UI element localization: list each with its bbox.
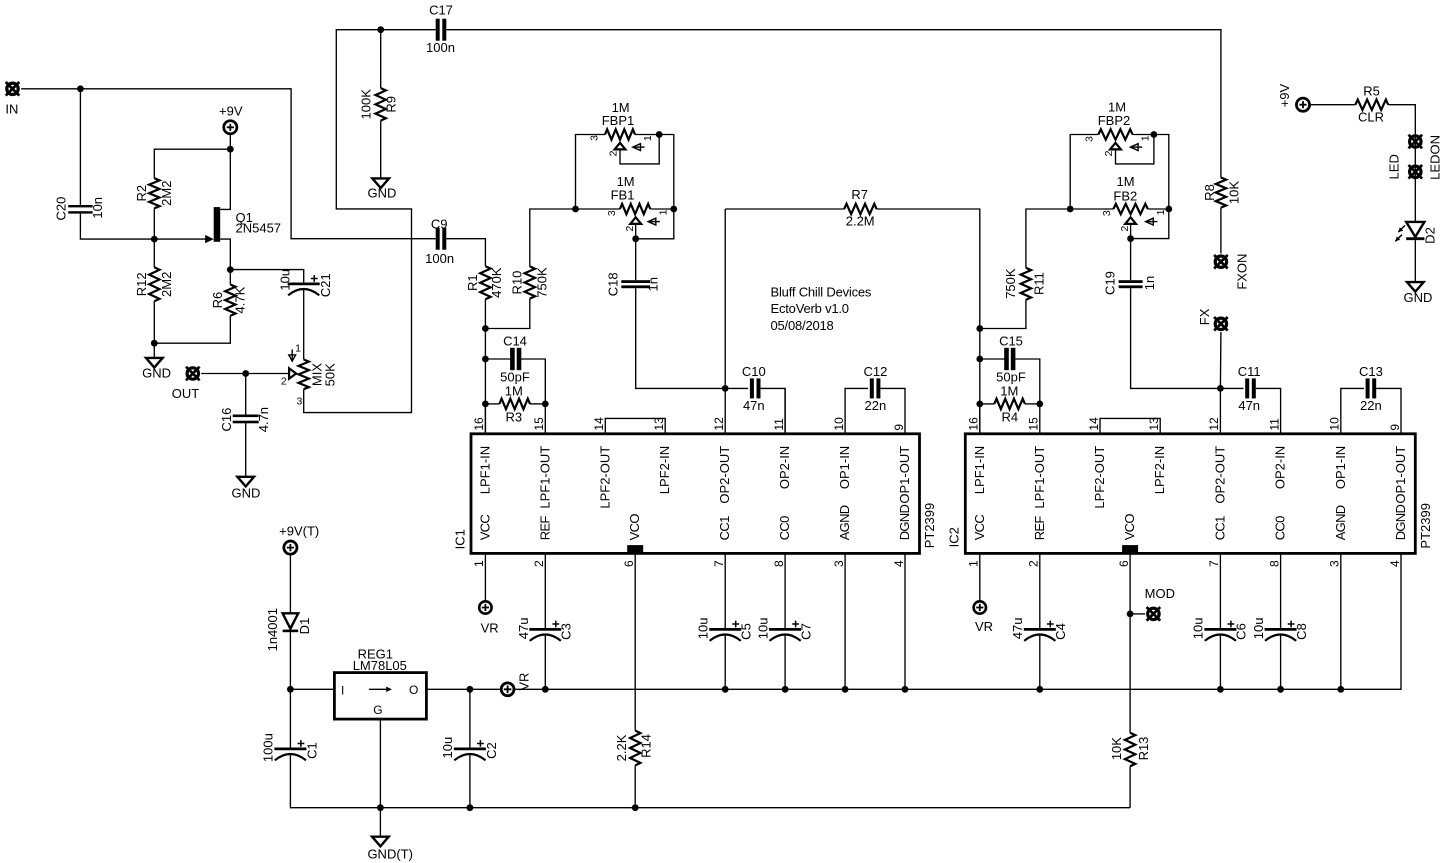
svg-text:16: 16: [472, 417, 486, 431]
marker D2 light arrows: [1398, 225, 1405, 232]
svg-text:C17: C17: [429, 3, 453, 18]
svg-text:2: 2: [281, 375, 287, 387]
wire C13 bracket right: [1376, 388, 1401, 433]
power VR under IC2 pin1: [974, 601, 986, 613]
svg-text:GND: GND: [1404, 290, 1433, 305]
wire C4 bottom: [1039, 634, 1041, 689]
wire IC1 pin15 stub: [544, 404, 546, 434]
wire FBP2 wiper bracket: [1116, 135, 1154, 164]
potentiometer FB1 1M: [620, 204, 650, 214]
wire MIX pin3 feedback loop: [304, 30, 436, 413]
svg-text:7: 7: [712, 560, 726, 567]
svg-text:R7: R7: [851, 187, 868, 202]
svg-text:FB2: FB2: [1113, 189, 1137, 204]
ground GND under C16: [237, 477, 254, 487]
wire IC1 pin4 stub: [904, 553, 906, 689]
svg-text:R12: R12: [134, 272, 149, 296]
svg-text:C10: C10: [742, 364, 766, 379]
svg-text:AGND: AGND: [837, 505, 852, 540]
wire FBP1 wiper bracket: [620, 135, 659, 164]
svg-text:15: 15: [532, 417, 546, 431]
svg-text:22n: 22n: [1360, 398, 1382, 413]
junction +9V node: [227, 146, 234, 153]
svg-text:R3: R3: [505, 410, 522, 425]
wire R7 right: [877, 209, 980, 329]
svg-text:C2: C2: [484, 742, 499, 759]
pad FX: [1214, 317, 1228, 331]
wire source: [220, 239, 230, 270]
wiper FBP2: [1110, 143, 1121, 150]
wire C14 bracket: [485, 358, 510, 360]
wire R13 top: [1129, 553, 1131, 732]
svg-text:C6: C6: [1234, 623, 1249, 640]
wire D2 cathode: [1414, 240, 1416, 282]
svg-text:1M: 1M: [1000, 384, 1018, 399]
svg-text:12: 12: [1207, 417, 1221, 431]
wire +9V stub: [229, 134, 231, 149]
wire R10 top: [530, 209, 576, 266]
svg-text:+9V: +9V: [219, 103, 243, 118]
svg-text:C7: C7: [798, 623, 813, 640]
svg-text:FX: FX: [1197, 308, 1212, 325]
svg-text:11: 11: [1267, 418, 1281, 431]
junction FB2 right: [1165, 206, 1172, 213]
svg-text:C8: C8: [1294, 623, 1309, 640]
junction IC1 pin4/VR rail: [902, 686, 909, 693]
svg-text:REF: REF: [537, 516, 552, 541]
svg-text:1: 1: [1140, 135, 1152, 141]
svg-text:OP2-OUT: OP2-OUT: [1212, 446, 1227, 504]
wire IC2 pin15 stub: [1039, 404, 1041, 434]
svg-text:IN: IN: [5, 102, 18, 117]
capacitor C17: [436, 19, 440, 41]
wiper MIX: [289, 368, 296, 378]
wire C17 right to R8: [446, 30, 1221, 178]
wire C11 bracket right: [1256, 388, 1281, 433]
wire C7 bottom: [784, 634, 786, 689]
svg-text:AGND: AGND: [1333, 505, 1348, 540]
junction C15 left: [976, 356, 983, 363]
wire C10 bracket left: [725, 387, 748, 389]
svg-text:2: 2: [1103, 150, 1115, 156]
svg-text:C1: C1: [305, 742, 320, 759]
wire REG1 G stub: [379, 719, 381, 808]
svg-text:47u: 47u: [1010, 618, 1025, 640]
svg-text:CLR: CLR: [1358, 109, 1384, 124]
resistor R9: [376, 88, 386, 121]
junction gate node: [151, 236, 158, 243]
junction R3 left pin16: [482, 401, 489, 408]
svg-text:10u: 10u: [278, 269, 293, 291]
marker FBP1 cw arrow: [633, 146, 645, 148]
capacitor C18: [621, 280, 650, 283]
wire FB1 pin1 bracket: [636, 209, 674, 239]
svg-text:OP1-IN: OP1-IN: [1333, 446, 1348, 489]
svg-text:3: 3: [589, 135, 601, 141]
potentiometer FB2 1M: [1113, 204, 1147, 214]
junction C7/VR rail: [782, 686, 789, 693]
junction FB1 right: [670, 206, 677, 213]
wire MOD stub: [1130, 613, 1145, 615]
svg-text:C21: C21: [318, 273, 333, 297]
wire FBP2 right: [1133, 135, 1169, 210]
svg-text:VCC: VCC: [477, 515, 492, 541]
svg-text:12: 12: [712, 417, 726, 431]
svg-text:3: 3: [1101, 210, 1113, 216]
wire FB2 right to bracket: [1148, 208, 1169, 210]
junction C2 top: [467, 686, 474, 693]
wire C18 bottom to pin12: [636, 288, 726, 388]
resistor R1: [480, 266, 490, 299]
wire FB2 pin1 bracket: [1131, 209, 1169, 239]
svg-text:750K: 750K: [1003, 268, 1018, 299]
svg-text:C12: C12: [863, 364, 887, 379]
svg-text:4: 4: [1388, 560, 1402, 567]
wire R10 bottom: [485, 299, 529, 329]
wire C21 to MIX pin1: [303, 289, 305, 360]
svg-text:10u: 10u: [440, 737, 455, 759]
wire IC1 pin2 stub: [544, 553, 546, 628]
junction source node: [227, 266, 234, 273]
wire FB1 row: [576, 208, 620, 210]
pad LEDON: [1409, 135, 1423, 149]
svg-text:OP1-IN: OP1-IN: [837, 446, 852, 489]
svg-text:47n: 47n: [1238, 398, 1260, 413]
wire C11 bracket left: [1220, 387, 1243, 389]
svg-text:PT2399: PT2399: [922, 503, 937, 549]
resistor R6: [225, 285, 235, 316]
wire R3 right stub: [530, 403, 545, 405]
svg-text:LM78L05: LM78L05: [353, 658, 407, 673]
wire R8 bottom: [1220, 208, 1222, 254]
svg-text:4: 4: [892, 560, 906, 567]
wire C6 bottom: [1219, 634, 1221, 689]
marker MIX cw arrow: [291, 349, 293, 361]
junction G/gnd bus: [377, 804, 384, 811]
svg-text:2N5457: 2N5457: [236, 221, 282, 236]
svg-text:10u: 10u: [1191, 618, 1206, 640]
wire IC2 pin8 stub: [1280, 553, 1282, 628]
svg-text:R6: R6: [210, 292, 225, 309]
wire FBP1 pin3 left: [576, 135, 606, 210]
svg-text:R11: R11: [1032, 272, 1047, 295]
svg-text:OP1-OUT: OP1-OUT: [1393, 446, 1408, 504]
svg-text:LPF1-IN: LPF1-IN: [477, 446, 492, 494]
svg-text:100n: 100n: [425, 251, 454, 266]
svg-text:2: 2: [624, 226, 636, 232]
IC IC2 PT2399 body: [965, 434, 1415, 554]
svg-text:LPF1-OUT: LPF1-OUT: [1032, 446, 1047, 509]
svg-text:8: 8: [1267, 560, 1281, 567]
junction OUT/C16: [242, 370, 249, 377]
svg-text:D1: D1: [297, 618, 312, 635]
ground GND left: [146, 358, 163, 368]
wire R4 right stub: [1025, 403, 1040, 405]
svg-text:+9V: +9V: [1277, 84, 1292, 108]
wire FX to pin12: [1219, 332, 1222, 388]
capacitor C7: [769, 628, 801, 631]
junction C17/R9: [377, 26, 384, 33]
capacitor C5: [709, 628, 741, 631]
svg-text:R10: R10: [510, 271, 525, 295]
wire FB2 wiper stub: [1130, 224, 1132, 239]
svg-text:8: 8: [772, 560, 786, 567]
junction R1/R10: [482, 325, 489, 332]
capacitor C19: [1119, 280, 1143, 283]
junction C3/VR rail: [542, 686, 549, 693]
svg-text:R14: R14: [638, 734, 653, 758]
svg-text:OUT: OUT: [172, 386, 200, 401]
svg-text:C5: C5: [738, 623, 753, 640]
svg-text:1M: 1M: [505, 384, 523, 399]
svg-text:OP2-IN: OP2-IN: [1273, 446, 1288, 489]
svg-text:IC2: IC2: [947, 527, 962, 547]
svg-text:EctoVerb v1.0: EctoVerb v1.0: [771, 301, 849, 316]
svg-text:1n: 1n: [646, 277, 661, 291]
svg-text:2M2: 2M2: [159, 272, 174, 297]
wire C10 bracket right: [761, 388, 786, 433]
power VR flag: [501, 683, 514, 696]
resistor R11 750K: [1021, 268, 1031, 300]
svg-text:11: 11: [772, 418, 786, 431]
wire R14 bottom: [634, 765, 636, 807]
svg-text:3: 3: [606, 210, 618, 216]
svg-text:FB1: FB1: [611, 188, 635, 203]
pad IN: [6, 82, 20, 96]
svg-text:LPF1-IN: LPF1-IN: [972, 446, 987, 494]
wire C18 top: [635, 239, 637, 280]
svg-text:VCO: VCO: [627, 514, 642, 541]
wire C20 bottom to gate: [80, 214, 206, 240]
pad OUT: [186, 367, 200, 381]
svg-text:10: 10: [1328, 417, 1342, 431]
svg-text:2: 2: [532, 560, 546, 567]
svg-text:9: 9: [1388, 424, 1402, 431]
svg-text:1: 1: [642, 135, 654, 141]
svg-text:CC0: CC0: [777, 516, 792, 540]
svg-text:I: I: [341, 683, 344, 697]
resistor R8 10K: [1216, 178, 1226, 208]
ground GND under R9: [372, 178, 389, 188]
svg-text:GND(T): GND(T): [367, 847, 413, 862]
svg-text:DGND: DGND: [897, 505, 912, 541]
wiper FB2: [1125, 217, 1136, 224]
svg-text:10u: 10u: [755, 618, 770, 640]
wire C15 bracket right: [1015, 359, 1040, 404]
svg-text:10: 10: [832, 417, 846, 431]
wire OUT to wiper: [201, 373, 289, 375]
svg-text:750K: 750K: [534, 267, 549, 298]
capacitor C3: [529, 628, 561, 631]
junction R14/gnd bus: [632, 804, 639, 811]
svg-text:47n: 47n: [743, 398, 765, 413]
junction IC2 pin3/VR rail: [1337, 686, 1344, 693]
wire C15 bracket: [980, 358, 1005, 360]
wire IC2 pin3 stub: [1340, 553, 1342, 689]
resistor R3: [499, 399, 530, 409]
svg-text:LEDON: LEDON: [1428, 135, 1443, 180]
marker REG1 arrow: [369, 688, 389, 690]
resistor R10: [525, 266, 535, 298]
wire C19 top: [1130, 239, 1132, 281]
wire C1 top: [289, 689, 291, 747]
svg-text:2.2K: 2.2K: [614, 734, 629, 761]
svg-text:DGND: DGND: [1393, 505, 1408, 541]
svg-text:1: 1: [657, 209, 669, 215]
wire R7 left drop: [724, 209, 726, 388]
svg-text:R13: R13: [1136, 737, 1151, 761]
junction FBP1 pin1: [656, 131, 663, 138]
svg-text:10n: 10n: [90, 197, 105, 219]
svg-text:100K: 100K: [359, 89, 374, 120]
diode D1: [283, 613, 299, 628]
svg-text:LPF2-OUT: LPF2-OUT: [1092, 446, 1107, 509]
wire C20 top: [79, 89, 81, 205]
capacitor C14: [510, 348, 515, 370]
wire IC1 pin3 stub: [844, 553, 846, 689]
svg-text:100n: 100n: [426, 40, 455, 55]
resistor R4: [994, 399, 1025, 409]
wire IC1 pin14-13 bracket: [605, 418, 665, 433]
resistor R5: [1355, 100, 1388, 110]
svg-text:10K: 10K: [1227, 181, 1242, 204]
wire C14 bracket right: [521, 359, 545, 404]
wire +9V(T) to D1: [289, 555, 291, 614]
diode D2 LED: [1406, 222, 1424, 237]
svg-text:10K: 10K: [1109, 737, 1124, 760]
svg-text:50K: 50K: [323, 363, 338, 386]
svg-text:LED: LED: [1386, 154, 1401, 179]
svg-text:2.2M: 2.2M: [846, 214, 875, 229]
wire R14 top: [634, 553, 636, 730]
power +9V(T): [284, 541, 297, 554]
svg-text:2M2: 2M2: [159, 181, 174, 206]
capacitor C8: [1265, 628, 1297, 631]
wire R9 bottom: [380, 121, 382, 179]
junction C5/VR rail: [722, 686, 729, 693]
svg-text:3: 3: [296, 395, 302, 407]
wire IC2 pin16 stub: [979, 404, 981, 434]
svg-text:16: 16: [967, 417, 981, 431]
svg-text:FXON: FXON: [1235, 254, 1250, 290]
wire R13 bottom: [1129, 766, 1131, 807]
svg-text:PT2399: PT2399: [1418, 503, 1433, 549]
svg-text:C20: C20: [53, 197, 68, 221]
svg-text:VCO: VCO: [1122, 514, 1137, 541]
junction C2 bottom: [467, 804, 474, 811]
wire C19 bottom to pin12: [1131, 288, 1221, 388]
marker FB1 cw arrow: [648, 221, 660, 223]
svg-text:2: 2: [1119, 226, 1131, 232]
wire FB1 wiper stub: [635, 224, 637, 239]
svg-text:GND: GND: [367, 185, 396, 200]
pad LED: [1409, 165, 1423, 179]
svg-text:VR: VR: [517, 673, 532, 691]
capacitor C15: [1004, 348, 1009, 370]
svg-text:05/08/2018: 05/08/2018: [771, 318, 834, 333]
wire IC2 pin14-13 bracket: [1100, 418, 1160, 433]
svg-text:G: G: [373, 703, 382, 717]
svg-text:1M: 1M: [1116, 174, 1134, 189]
svg-text:REF: REF: [1032, 516, 1047, 541]
wire C1 bottom to gnd bus: [290, 754, 1130, 808]
svg-text:C13: C13: [1359, 364, 1383, 379]
power VR under IC1 pin1: [479, 601, 491, 613]
potentiometer FBP2 1M: [1098, 129, 1132, 139]
marker FBP2 cw arrow: [1130, 146, 1142, 148]
svg-text:50pF: 50pF: [500, 369, 530, 384]
svg-text:9: 9: [892, 424, 906, 431]
svg-text:R2: R2: [134, 185, 149, 202]
potentiometer FBP1 1M: [605, 129, 635, 139]
capacitor C9: [436, 228, 440, 250]
wire R11 bottom: [980, 300, 1026, 329]
svg-text:470K: 470K: [489, 267, 504, 298]
svg-text:22n: 22n: [865, 398, 887, 413]
svg-text:1n: 1n: [1142, 276, 1157, 290]
wire drain: [220, 149, 230, 209]
wire D1 to REG1: [290, 631, 334, 689]
power +9V right: [1296, 98, 1309, 111]
svg-text:R1: R1: [465, 274, 480, 291]
svg-text:2: 2: [1027, 560, 1041, 567]
wire IC2 pin1 stub: [979, 553, 981, 601]
transistor Q1 channel bar: [214, 207, 221, 242]
wire IC1 pin16 stub: [484, 404, 486, 434]
wire C16 bottom: [245, 423, 247, 477]
wire C2 bottom: [469, 754, 471, 808]
svg-text:15: 15: [1027, 417, 1041, 431]
svg-text:C9: C9: [431, 217, 448, 232]
capacitor C10: [750, 378, 754, 398]
wire IN net top: [21, 89, 436, 239]
wire R3 left stub: [485, 403, 499, 405]
capacitor C1: [274, 748, 306, 751]
capacitor C11: [1245, 378, 1249, 398]
svg-text:Bluff Chill Devices: Bluff Chill Devices: [771, 285, 872, 300]
marker FB2 cw arrow: [1146, 221, 1158, 223]
wire IC2 pin7 stub: [1219, 553, 1221, 628]
wire R4 left stub: [980, 403, 995, 405]
wire C12 bracket right: [880, 388, 905, 433]
svg-text:GND: GND: [142, 366, 171, 381]
svg-text:R9: R9: [384, 96, 399, 113]
wire R2 top to +9V rail: [154, 149, 230, 178]
svg-text:4.7n: 4.7n: [256, 407, 271, 432]
junction MOD node: [1127, 611, 1134, 618]
svg-text:C3: C3: [559, 623, 574, 640]
junction FB2 wiper node: [1127, 235, 1134, 242]
wiper FB1: [630, 217, 641, 224]
svg-text:CC1: CC1: [717, 516, 732, 540]
svg-text:3: 3: [1084, 136, 1096, 142]
junction C6/VR rail: [1217, 686, 1224, 693]
junction R4 right pin15: [1036, 401, 1043, 408]
svg-text:100u: 100u: [261, 733, 276, 762]
svg-text:CC0: CC0: [1273, 516, 1288, 540]
wire C3 bottom: [544, 634, 546, 689]
wire R9 top: [380, 30, 382, 88]
svg-text:47u: 47u: [516, 618, 531, 640]
wire R11 top: [1026, 209, 1070, 268]
svg-text:VR: VR: [481, 620, 499, 635]
wire C16 top: [245, 374, 247, 415]
junction IN/C20: [77, 85, 84, 92]
svg-text:14: 14: [1087, 417, 1101, 431]
junction IC1 pin3/VR rail: [842, 686, 849, 693]
junction gnd node left: [151, 340, 158, 347]
resistor R14 2.2K: [630, 731, 640, 766]
